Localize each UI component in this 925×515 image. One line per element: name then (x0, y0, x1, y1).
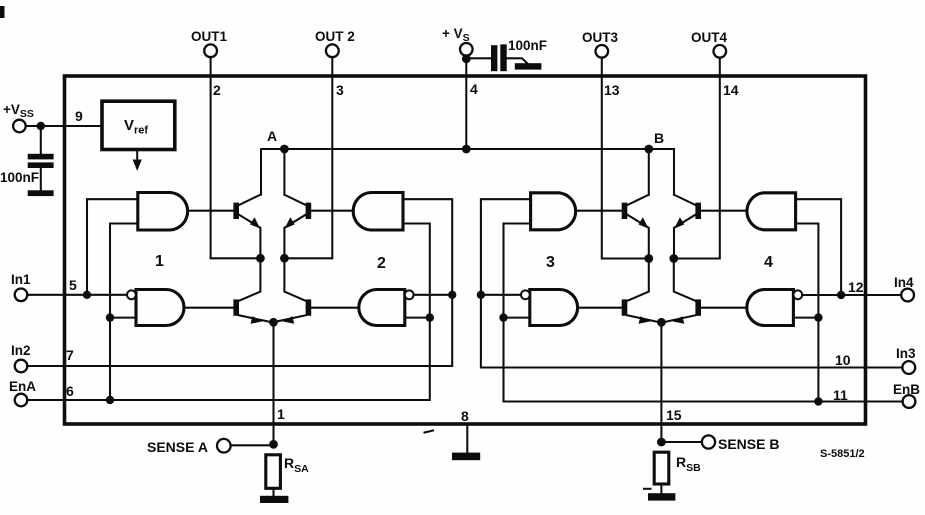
svg-text:3: 3 (546, 254, 555, 271)
svg-text:OUT1: OUT1 (191, 29, 227, 44)
transistor Q1 low-side (bridge A left lower) (233, 299, 271, 323)
pin OUT2 (pin 3) (315, 29, 355, 98)
AND gate 1 upper (138, 193, 188, 231)
inverter bubble gate1 (127, 290, 136, 299)
wire sense B vertical (pin 15) (660, 322, 662, 442)
AND gate 3 upper (531, 193, 576, 230)
transistor Q1 high-side (bridge A left upper) (233, 195, 260, 259)
wire internal supply rail A-B (y=149) (261, 149, 674, 195)
pin +VS (pin 4) (442, 26, 478, 97)
svg-text:B: B (654, 130, 664, 146)
pin In1 (pin 5) (11, 272, 77, 301)
node sense A junction (269, 440, 278, 449)
wire +VSS to Vref (26, 125, 101, 127)
transistor Q3 high-side (bridge B left upper) (622, 195, 649, 259)
svg-text:2: 2 (377, 255, 386, 272)
node VS rail junction (462, 145, 471, 154)
transistor Q3 low-side (bridge B left lower) (622, 299, 659, 323)
node bridge B left midpoint (644, 254, 653, 263)
svg-text:7: 7 (66, 347, 74, 363)
wire node A down to Q2 high-side collector (283, 149, 285, 195)
ground (VS decoupling cap) (515, 63, 542, 69)
node bridge B right midpoint (669, 254, 678, 263)
svg-text:OUT 2: OUT 2 (315, 29, 355, 44)
svg-text:5: 5 (69, 277, 77, 293)
capacitor 100nF on +VS (466, 38, 547, 71)
svg-text:SENSE A: SENSE A (147, 439, 208, 455)
pin GND (pin 8) (461, 408, 469, 453)
transistor Q4 low-side (bridge B right lower) (664, 299, 701, 323)
wire OUT1 vertical to half-bridge A left midpoint (211, 57, 261, 258)
ground (pin 8) (452, 453, 480, 461)
wire gate4 upper output to Q4 high-side base (701, 210, 745, 212)
svg-text:In4: In4 (894, 275, 914, 290)
wire EnB up to AND4 inputs (796, 224, 819, 402)
IC package box (65, 76, 866, 424)
svg-text:SENSE B: SENSE B (718, 436, 779, 452)
junction dot +VS node (462, 54, 471, 63)
capacitor 100nF on +VSS (0, 126, 54, 191)
pin OUT4 (pin 14) (691, 30, 739, 98)
wire EnA stub to AND2 lower gate (405, 317, 430, 319)
node +VSS cap junction (37, 122, 45, 130)
wire EnA line (27, 224, 430, 401)
wire node B down to Q3 high-side collector (648, 149, 650, 195)
wire EnB stub to AND3 lower gate (504, 317, 530, 319)
svg-text:OUT3: OUT3 (582, 30, 618, 45)
AND gate 3 lower (inverting input) (530, 290, 578, 326)
wire In3 line across to channel 3 (481, 199, 903, 367)
svg-text:100nF: 100nF (0, 170, 39, 185)
arrow from Vref (internal reference feed) (133, 150, 142, 172)
wire OUT4 vertical to half-bridge B right midpoint (674, 58, 720, 259)
svg-text:6: 6 (66, 383, 74, 399)
wire gate1 lower output to Q1 low-side base (184, 307, 233, 309)
pin EnA (pin 6) (9, 379, 74, 406)
wire gate4 lower output to Q4 low-side base (701, 307, 747, 309)
svg-text:1: 1 (277, 406, 285, 422)
wire gate3 upper output to Q3 high-side base (578, 210, 622, 212)
svg-text:14: 14 (723, 82, 739, 98)
voltage reference block U-Vref (102, 101, 175, 149)
svg-text:2: 2 (213, 82, 221, 98)
node EnB to AND3 lower input (499, 313, 507, 321)
scan tick near pin 8 (425, 431, 434, 433)
node EnB to AND4 lower input (814, 313, 822, 321)
svg-text:100nF: 100nF (508, 38, 547, 53)
wire In1 up to AND1 upper input (87, 199, 138, 295)
node bridge A right midpoint (280, 254, 289, 263)
pin OUT3 (pin 13) (582, 30, 620, 98)
ground (RSB) (648, 493, 675, 500)
wire gate2 upper output to Q2 high-side base (311, 210, 352, 212)
node bridge A left midpoint (256, 254, 265, 263)
svg-text:13: 13 (604, 82, 620, 98)
node EnA to AND2 lower input (426, 313, 434, 321)
svg-text:10: 10 (835, 352, 851, 368)
AND gate 2 upper (mirrored) (353, 193, 403, 231)
pin +VSS (pin 9) (3, 102, 83, 132)
AND gate 1 lower (inverting input) (136, 290, 184, 326)
transistor Q4 high-side (bridge B right upper) (674, 195, 701, 259)
svg-text:In1: In1 (11, 272, 31, 287)
svg-text:In2: In2 (11, 343, 31, 358)
resistor RSA (266, 455, 309, 496)
ground (VSS cap) (28, 190, 54, 196)
AND gate 4 lower (inverting input, mirrored) (747, 290, 794, 326)
svg-text:EnA: EnA (9, 379, 36, 394)
svg-text:15: 15 (666, 407, 682, 423)
wire gate1 upper output to Q1 high-side base (189, 210, 233, 212)
pin In2 (pin 7) (11, 343, 74, 372)
node bridge A emitter common (269, 318, 278, 327)
AND gate 4 upper (mirrored) (747, 193, 796, 230)
wire EnB line (504, 224, 903, 402)
wire EnA up to AND1 inputs (110, 224, 138, 401)
wire In4 line to gate4 bubble (802, 294, 901, 296)
svg-text:In3: In3 (896, 346, 916, 361)
wire midpoints down to low-side collectors (627, 259, 649, 301)
pin In3 (pin 10) (835, 346, 916, 374)
transistor Q2 high-side (bridge A right upper) (284, 195, 311, 259)
wire +VS down to internal supply rail (465, 59, 467, 149)
inverter bubble gate2 (405, 290, 414, 299)
pin In4 (pin 12) (848, 275, 914, 301)
svg-text:8: 8 (461, 408, 469, 424)
scan tick near RSB ground (644, 488, 651, 490)
node In2 branch to AND2 inverting input (448, 291, 456, 299)
pin OUT1 (pin 2) (191, 29, 227, 98)
AND gate 2 lower (inverting input, mirrored) (359, 290, 405, 326)
wire In1 line to gate 1 inputs (27, 294, 127, 296)
resistor RSB (654, 452, 701, 493)
pin SENSE B (661, 435, 779, 452)
wire EnA stub to AND1 lower gate (110, 317, 136, 319)
wire In2 branch to AND2 lower bubble (413, 294, 452, 296)
node sense B junction (657, 438, 666, 447)
wire In4 up to AND4 upper input (796, 199, 842, 295)
pin EnB (pin 11) (833, 382, 920, 408)
svg-text:12: 12 (848, 279, 864, 295)
wire In3 branch to AND3 lower bubble (481, 294, 521, 296)
wire gate2 lower output to Q2 low-side base (311, 307, 359, 309)
transistor Q2 low-side (bridge A right lower) (274, 299, 311, 323)
inverter bubble gate3 (521, 290, 530, 299)
node EnA to AND1 lower input (106, 313, 114, 321)
wire gate3 lower output to Q3 low-side base (578, 307, 622, 309)
svg-text:S-5851/2: S-5851/2 (820, 448, 865, 460)
pin SENSE A (147, 439, 274, 455)
svg-text:9: 9 (75, 108, 83, 124)
node bridge B emitter common (657, 318, 666, 327)
scan artifact mark top-left (0, 6, 5, 18)
node EnA branch channel1 (106, 396, 114, 404)
svg-text:4: 4 (470, 81, 478, 97)
svg-text:4: 4 (764, 254, 773, 271)
svg-text:3: 3 (336, 82, 344, 98)
inverter bubble gate4 (793, 290, 802, 299)
wire In2 line across to channel 2 (27, 199, 452, 366)
svg-text:1: 1 (155, 253, 164, 270)
node In3 branch to AND3 inverting input (477, 291, 485, 299)
node In1 branch (83, 291, 91, 299)
wire EnB stub to AND4 lower gate (793, 317, 818, 319)
wire sense A vertical (pin 1) (272, 322, 274, 444)
svg-text:A: A (267, 128, 277, 144)
wire OUT3 vertical to half-bridge B left midpoint (602, 58, 649, 259)
wire OUT2 vertical to half-bridge A right midpoint (284, 57, 332, 258)
ground (RSA) (260, 496, 288, 503)
node In4 branch (837, 291, 845, 299)
svg-text:OUT4: OUT4 (691, 30, 727, 45)
node EnB branch channel4 (814, 397, 822, 405)
wire midpoints down to low-side collectors (239, 258, 260, 301)
